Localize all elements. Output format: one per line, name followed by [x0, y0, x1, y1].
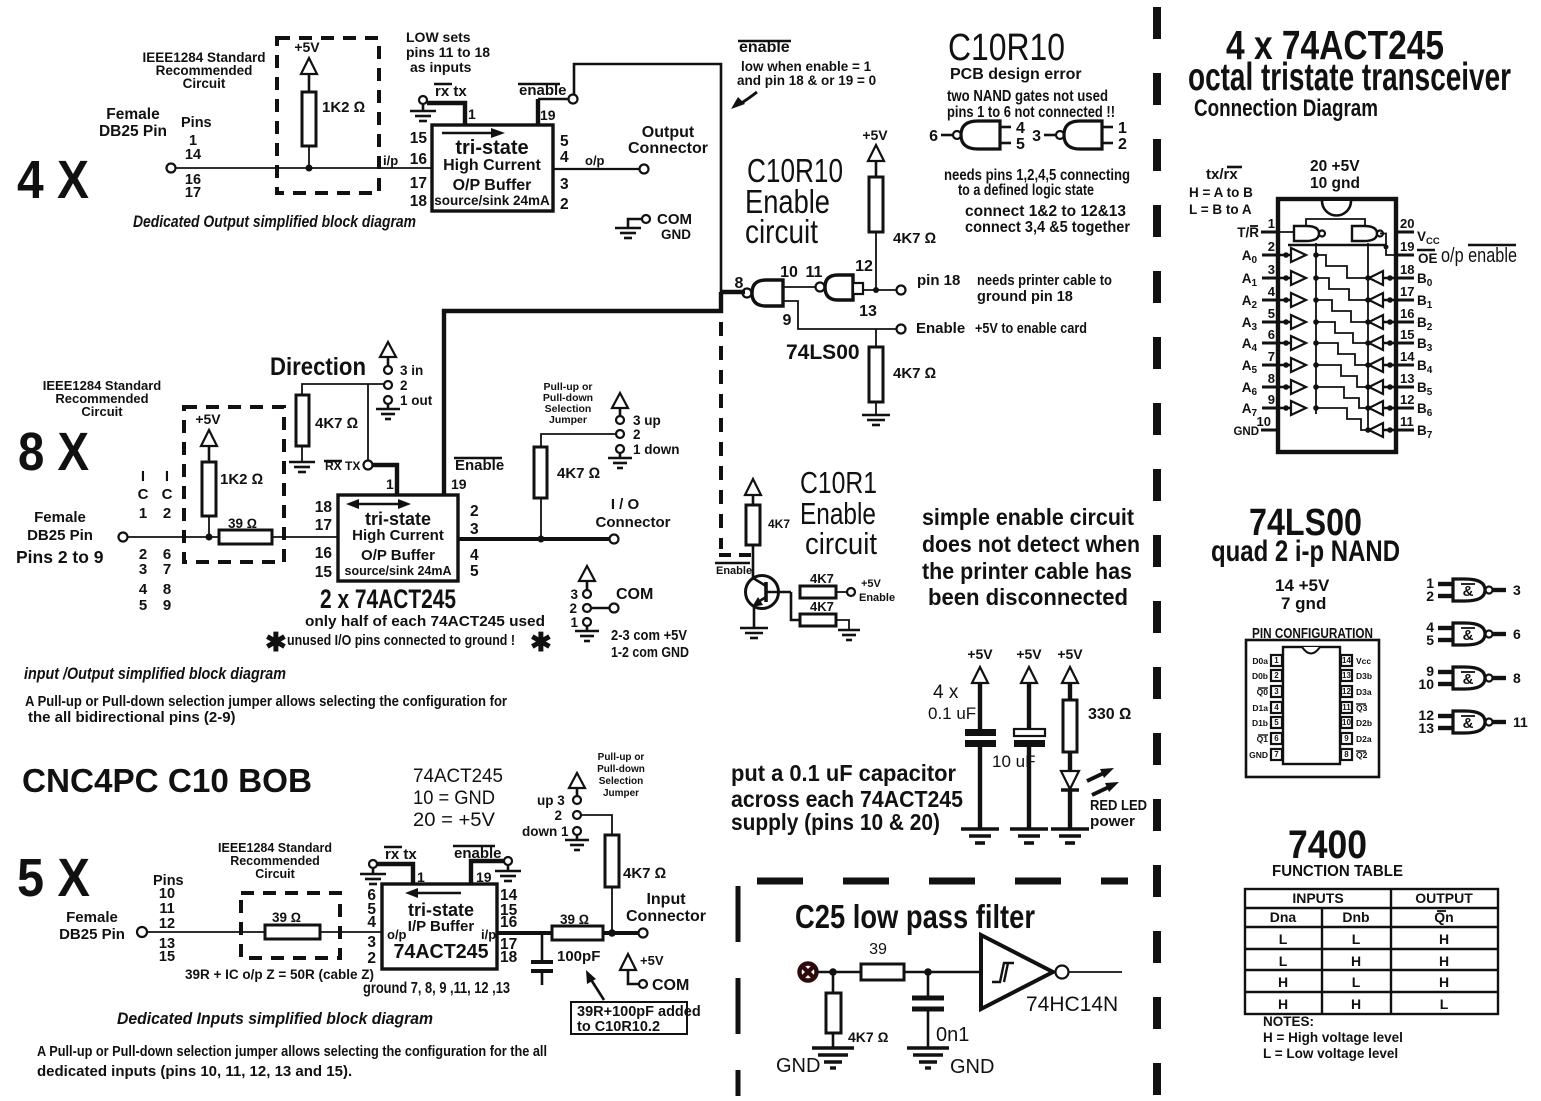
svg-text:to C10R10.2: to C10R10.2 [577, 1019, 660, 1035]
svg-text:7: 7 [163, 561, 171, 578]
label Output Connector [628, 124, 708, 157]
svg-text:2 x 74ACT245: 2 x 74ACT245 [320, 584, 456, 614]
svg-text:H: H [1351, 996, 1361, 1012]
wire pins to buffers B side [1383, 278, 1396, 430]
svg-text:D2b: D2b [1356, 718, 1372, 728]
svg-text:39 Ω: 39 Ω [272, 910, 301, 925]
svg-text:low when enable = 1: low when enable = 1 [741, 59, 872, 74]
svg-text:i/p: i/p [481, 927, 496, 942]
svg-text:I/P Buffer: I/P Buffer [408, 918, 475, 935]
svg-text:+5V: +5V [294, 39, 320, 55]
capacitor C 10uF polarized [1014, 729, 1045, 736]
svg-text:connect 1&2 to 12&13: connect 1&2 to 12&13 [965, 203, 1126, 220]
svg-text:GND: GND [661, 227, 691, 242]
svg-text:10: 10 [1342, 718, 1351, 727]
ground rx/tx [419, 96, 427, 104]
wire DB25 to buffer i/p [176, 167, 432, 169]
svg-text:12: 12 [855, 258, 873, 275]
svg-text:5: 5 [1426, 632, 1434, 648]
wire gate2 input to pin 18 terminal [863, 289, 897, 291]
wire resistor to ground [836, 620, 849, 630]
svg-text:Input: Input [646, 891, 686, 908]
svg-text:17: 17 [185, 185, 201, 201]
svg-text:74ACT245: 74ACT245 [394, 941, 489, 963]
NAND gate symbol pins 1 2 3 [1426, 575, 1521, 604]
svg-text:Connector: Connector [628, 140, 708, 157]
svg-text:9: 9 [1344, 734, 1349, 743]
wire pins to buffers A side [1278, 255, 1291, 408]
dashed wire Enable into C10R1 [719, 553, 751, 557]
svg-text:Dnb: Dnb [1342, 909, 1369, 925]
buffer triangles B side [1365, 271, 1393, 437]
svg-text:13: 13 [859, 303, 877, 320]
svg-text:Dedicated Output simplified b: Dedicated Output simplified block diagra… [133, 213, 416, 231]
svg-text:3: 3 [1513, 582, 1521, 598]
pin numbers right [1400, 216, 1415, 429]
resistor 39 [861, 964, 904, 980]
svg-text:O/P Buffer: O/P Buffer [453, 177, 532, 194]
resistor 4K7 base [746, 505, 760, 545]
svg-text:and pin 18 & or 19 = 0: and pin 18 & or 19 = 0 [737, 73, 876, 88]
terminal RX TX [364, 461, 373, 470]
svg-text:input /Output simplified block: input /Output simplified block diagram [24, 664, 286, 683]
wire 4K7 down to ground [301, 446, 303, 462]
pin labels left 15 16 17 18 [410, 130, 428, 210]
svg-text:+5V to enable card: +5V to enable card [975, 321, 1087, 337]
svg-text:3 in: 3 in [400, 363, 423, 378]
resistor 4K7 direction pull [296, 395, 309, 446]
svg-text:4K7 Ω: 4K7 Ω [623, 865, 666, 882]
svg-text:17: 17 [410, 175, 427, 192]
svg-text:4K7 Ω: 4K7 Ω [893, 365, 936, 382]
svg-text:COM: COM [657, 211, 692, 228]
svg-text:C: C [162, 486, 173, 503]
svg-text:Connection Diagram: Connection Diagram [1194, 95, 1378, 122]
svg-text:LOW sets: LOW sets [406, 29, 471, 45]
svg-text:power: power [1090, 813, 1135, 830]
svg-text:L: L [1279, 953, 1288, 969]
svg-text:GND: GND [776, 1055, 820, 1077]
svg-text:the all bidirectional pins (2-: the all bidirectional pins (2-9) [28, 709, 236, 726]
svg-text:17: 17 [1400, 284, 1414, 299]
svg-text:14: 14 [1342, 656, 1351, 665]
svg-text:18: 18 [500, 949, 518, 966]
resistor 39 series [265, 925, 320, 939]
wire emitter to ground [753, 607, 756, 628]
svg-text:8: 8 [735, 275, 744, 292]
svg-text:1: 1 [139, 505, 147, 522]
svg-text:1: 1 [1274, 656, 1279, 665]
svg-text:18: 18 [410, 193, 428, 210]
svg-text:2-3 com +5V: 2-3 com +5V [611, 628, 687, 644]
svg-text:circuit: circuit [805, 526, 877, 561]
pin stubs left [1261, 232, 1278, 430]
wire 4K7 up to jumper pin2 [541, 434, 615, 447]
NAND gate symbol pins 4 5 6 [1426, 619, 1521, 648]
bus right [1367, 243, 1369, 430]
wire enable pin 19 to ground terminal [471, 861, 504, 884]
svg-text:14 +5V: 14 +5V [1275, 576, 1330, 595]
staircase wires [1316, 255, 1368, 430]
pin labels left 6 5 4 3 2 [367, 887, 376, 967]
svg-text:✱: ✱ [265, 627, 287, 657]
svg-text:13: 13 [1400, 371, 1414, 386]
svg-text:High Current: High Current [443, 157, 541, 174]
svg-text:4: 4 [560, 149, 569, 166]
svg-text:H: H [1439, 953, 1449, 969]
svg-text:Jumper: Jumper [549, 414, 587, 426]
pin labels right 14 15 16 17 18 [500, 887, 518, 966]
terminal input X [800, 964, 817, 981]
svg-text:9: 9 [783, 312, 792, 329]
svg-text:5: 5 [470, 563, 479, 580]
svg-text:H = High voltage level: H = High voltage level [1263, 1030, 1403, 1045]
svg-text:3: 3 [1274, 687, 1279, 696]
ground below pin1 [387, 404, 390, 409]
svg-text:needs printer cable to: needs printer cable to [977, 273, 1112, 289]
svg-text:✱: ✱ [530, 627, 552, 657]
svg-text:Enable: Enable [716, 565, 752, 577]
svg-text:4: 4 [367, 914, 376, 931]
svg-text:4: 4 [139, 581, 148, 598]
note Pull-up or Pull-down Selection Jumper [597, 752, 645, 799]
svg-text:5: 5 [1274, 718, 1279, 727]
wire rx/tx to pin1 [377, 864, 413, 884]
svg-text:0.1 uF: 0.1 uF [928, 704, 976, 723]
svg-text:IEEE1284 Standard: IEEE1284 Standard [218, 841, 332, 855]
svg-text:DB25 Pin: DB25 Pin [27, 527, 93, 544]
svg-text:+5V: +5V [195, 411, 221, 427]
svg-text:source/sink 24mA: source/sink 24mA [345, 564, 452, 578]
svg-text:octal tristate transceiver: octal tristate transceiver [1188, 56, 1511, 99]
svg-text:18: 18 [1400, 262, 1414, 277]
svg-text:2: 2 [554, 808, 562, 823]
pin labels left 18 17 16 15 [315, 499, 333, 581]
svg-text:4 X: 4 X [17, 150, 89, 210]
arrows LED light [1087, 772, 1106, 781]
power +5V jumper [569, 773, 585, 788]
svg-text:Pull-up or: Pull-up or [598, 752, 645, 763]
pin labels right 5 4 3 2 [560, 133, 569, 213]
terminal input connector [639, 929, 648, 938]
wire buffer to I/O connector [458, 537, 610, 541]
dashed page separator [1153, 7, 1161, 1096]
note put a 0.1uF capacitor [731, 760, 963, 835]
svg-text:GND: GND [1233, 426, 1259, 438]
svg-text:4: 4 [1016, 120, 1025, 137]
svg-text:+5V: +5V [1016, 646, 1042, 662]
wire jumper pin2 to 4K7 [581, 815, 612, 835]
svg-text:Dedicated Inputs simplif: Dedicated Inputs simplified block diagra… [117, 1010, 433, 1028]
svg-text:Direction: Direction [270, 353, 366, 381]
DIP14 outer box [1246, 640, 1379, 777]
pin numbers left [1257, 216, 1276, 429]
dashed box IEEE1284 [241, 893, 340, 958]
svg-text:10: 10 [159, 886, 175, 902]
jumper pins 3 2 1 [573, 796, 581, 804]
svg-text:16: 16 [315, 545, 333, 562]
wire input to node1 [816, 971, 861, 974]
svg-text:rx tx: rx tx [435, 83, 467, 100]
svg-text:5: 5 [1268, 306, 1275, 321]
svg-text:Circuit: Circuit [81, 404, 123, 419]
svg-text:ground pin 18: ground pin 18 [977, 289, 1073, 305]
NAND gate inside chip left [1294, 226, 1319, 241]
svg-text:PCB design error: PCB design error [950, 66, 1082, 83]
svg-text:rx tx: rx tx [385, 846, 417, 863]
dashed wire enable region [719, 322, 723, 549]
svg-text:3: 3 [1032, 128, 1041, 145]
svg-text:9: 9 [1268, 392, 1275, 407]
wire resistor to transistor [752, 545, 755, 578]
resistor 4K7 to ground [800, 614, 836, 626]
svg-text:quad 2 i-p NAND: quad 2 i-p NAND [1211, 535, 1400, 568]
svg-text:C: C [138, 486, 149, 503]
svg-text:put a 0.1 uF capacitor: put a 0.1 uF capacitor [731, 760, 956, 786]
svg-text:7400: 7400 [1288, 823, 1367, 867]
resistor 4K7 pull jumper [534, 447, 547, 498]
svg-text:15: 15 [315, 564, 333, 581]
resistor 39 series [219, 530, 272, 544]
wire 4K7 up to jumper pin2 [302, 384, 384, 395]
ground COM GND [642, 215, 650, 223]
svg-text:2: 2 [633, 427, 641, 442]
svg-text:15: 15 [1400, 327, 1414, 342]
svg-text:&: & [1463, 715, 1474, 732]
svg-text:20 +5V: 20 +5V [1310, 158, 1360, 175]
svg-text:20 = +5V: 20 = +5V [413, 810, 495, 831]
svg-text:o/p: o/p [585, 153, 605, 168]
svg-text:NOTES:: NOTES: [1263, 1014, 1314, 1029]
diode LED red [1061, 771, 1079, 789]
resistor 4K7 [605, 835, 619, 887]
label IC1 IC2 columns [138, 468, 173, 614]
svg-text:H: H [1278, 974, 1288, 990]
table 7400 function [1245, 889, 1498, 1014]
wire rx/tx to pin 1 [427, 103, 465, 125]
svg-text:as inputs: as inputs [410, 59, 472, 75]
svg-text:A Pull-up or Pull-down selecti: A Pull-up or Pull-down selection jumper … [37, 1043, 547, 1060]
ground GND right [907, 1048, 949, 1068]
wire internal bus under gates [1288, 244, 1386, 247]
svg-text:12: 12 [159, 916, 175, 932]
wire resistor to LED [1068, 752, 1072, 771]
svg-text:H: H [1439, 931, 1449, 947]
svg-text:i/p: i/p [383, 153, 398, 168]
label Female DB25 Pin [99, 106, 167, 140]
node junction on i/p wire [306, 165, 313, 172]
svg-text:DB25 Pin: DB25 Pin [59, 926, 125, 943]
svg-text:10 uF: 10 uF [992, 752, 1035, 771]
svg-text:2: 2 [400, 378, 408, 393]
svg-text:4 x: 4 x [933, 682, 959, 703]
svg-text:&: & [1463, 671, 1474, 688]
svg-text:I: I [165, 468, 169, 485]
svg-text:&: & [1463, 583, 1474, 600]
wire to terminal [836, 591, 847, 593]
svg-text:dedicated inputs (pins 10, 11,: dedicated inputs (pins 10, 11, 12, 13 an… [37, 1063, 352, 1080]
svg-text:Output: Output [642, 124, 695, 141]
wire pullup to pin18 line [875, 232, 877, 290]
svg-text:39 Ω: 39 Ω [228, 516, 257, 531]
svg-text:C10R1: C10R1 [800, 465, 877, 500]
svg-text:GND: GND [950, 1056, 994, 1078]
svg-text:Pins 2 to 9: Pins 2 to 9 [16, 547, 104, 567]
svg-text:Connector: Connector [596, 514, 671, 531]
svg-text:simple enable circuit: simple enable circuit [922, 504, 1134, 530]
svg-text:supply (pins 10 & 20): supply (pins 10 & 20) [731, 809, 940, 835]
transistor Q1 [746, 576, 779, 609]
arrow bidirectional [355, 503, 402, 506]
ground [838, 630, 860, 640]
svg-text:74ACT245: 74ACT245 [413, 766, 503, 787]
svg-text:5 X: 5 X [17, 848, 90, 908]
svg-text:does not detect when: does not detect when [922, 531, 1140, 557]
svg-text:1: 1 [1118, 120, 1127, 137]
svg-text:INPUTS: INPUTS [1292, 890, 1343, 906]
ground [862, 415, 890, 425]
svg-text:High Current: High Current [352, 527, 444, 544]
terminal DB25 [119, 533, 128, 542]
svg-text:COM: COM [652, 977, 689, 994]
svg-text:+5V: +5V [862, 127, 888, 143]
dashed box C25 filter top border [757, 878, 1128, 885]
wire resistor to node [308, 146, 310, 168]
svg-text:12: 12 [1400, 392, 1414, 407]
resistor 4K7 pulldown [869, 347, 883, 402]
svg-text:OE: OE [1418, 251, 1438, 266]
svg-text:T/R: T/R [1237, 225, 1259, 240]
svg-text:11: 11 [1400, 414, 1414, 429]
svg-text:o/p enable: o/p enable [1441, 245, 1517, 267]
svg-text:3: 3 [570, 587, 578, 602]
arrow direction right [442, 132, 494, 135]
svg-text:H: H [1439, 974, 1449, 990]
svg-text:Dna: Dna [1270, 909, 1297, 925]
svg-text:two NAND gates not used: two NAND gates not used [947, 88, 1108, 105]
svg-text:17: 17 [315, 517, 332, 534]
svg-text:D1b: D1b [1252, 718, 1268, 728]
svg-text:C25 low pass filter: C25 low pass filter [795, 898, 1035, 935]
schmitt hysteresis symbol [992, 963, 1014, 982]
svg-text:8: 8 [1344, 750, 1349, 759]
svg-text:Selection: Selection [599, 776, 643, 787]
svg-text:3: 3 [139, 561, 147, 578]
svg-text:L = B to A: L = B to A [1189, 202, 1252, 217]
DIP14 body [1283, 647, 1340, 764]
svg-text:2: 2 [560, 196, 569, 213]
op-amp tri-state O/P buffer box 2x74ACT245 [338, 495, 458, 581]
svg-text:unused I/O pins connected to g: unused I/O pins connected to ground ! [287, 632, 515, 649]
op-amp tri-state I/P buffer 74ACT245 [382, 884, 497, 969]
svg-text:Enable: Enable [455, 457, 504, 474]
svg-text:O/P Buffer: O/P Buffer [361, 547, 435, 564]
svg-text:6: 6 [1513, 626, 1521, 642]
svg-text:H: H [1351, 953, 1361, 969]
svg-text:+5V: +5V [1057, 646, 1083, 662]
note Pull-up or Pull-down Selection Jumper [543, 381, 593, 426]
svg-text:tri-state: tri-state [408, 900, 474, 920]
svg-text:+5V: +5V [640, 953, 664, 968]
DIP14 pins left [1271, 655, 1282, 760]
power +5V COM [620, 954, 636, 970]
svg-text:11: 11 [1513, 714, 1528, 730]
svg-text:Recommended: Recommended [230, 854, 320, 868]
ground [961, 829, 999, 843]
terminal enable [569, 95, 578, 104]
jumper pull pins 3 2 1 [616, 416, 624, 424]
svg-text:been disconnected: been disconnected [928, 584, 1128, 610]
svg-text:8: 8 [163, 581, 171, 598]
resistor 1K2 [202, 462, 216, 516]
svg-text:9: 9 [163, 597, 171, 614]
power +5V direction jumper [380, 342, 396, 357]
svg-text:3 up: 3 up [633, 413, 661, 428]
ground rx/tx [369, 860, 377, 868]
svg-text:6: 6 [1274, 734, 1279, 743]
svg-text:10 = GND: 10 = GND [413, 788, 495, 809]
svg-text:4K7 Ω: 4K7 Ω [315, 415, 358, 432]
svg-text:16: 16 [500, 914, 518, 931]
wire enable bus down and left to 8X pin19 [721, 290, 745, 294]
IC U2 74ACT245 chip body [1278, 199, 1396, 452]
note simple enable circuit [922, 504, 1140, 610]
svg-text:pins 11 to 18: pins 11 to 18 [406, 44, 490, 60]
wire pulldown to ground [875, 402, 877, 415]
svg-text:4K7: 4K7 [810, 571, 834, 586]
svg-text:11: 11 [1342, 703, 1351, 712]
svg-text:1K2 Ω: 1K2 Ω [220, 471, 263, 488]
svg-text:15: 15 [410, 130, 428, 147]
label Female DB25 Pin [27, 509, 93, 544]
NAND gate symbol pins 9 10 8 [1418, 663, 1521, 692]
pin labels right 2 3 4 5 [470, 503, 479, 580]
pin labels left [1233, 225, 1259, 438]
svg-text:74LS00: 74LS00 [786, 341, 860, 364]
svg-text:1 out: 1 out [400, 393, 433, 408]
svg-text:Circuit: Circuit [183, 76, 226, 91]
ground below pin1 [619, 453, 622, 458]
svg-text:D0a: D0a [1252, 656, 1268, 666]
bus left [1315, 243, 1317, 414]
wire DB25 to buffer [128, 536, 338, 538]
svg-text:10 gnd: 10 gnd [1310, 175, 1360, 192]
svg-text:5: 5 [560, 133, 569, 150]
svg-text:10: 10 [1418, 676, 1434, 692]
wire resistor to terminal [603, 931, 639, 935]
wire jumper to RX TX node [367, 384, 369, 461]
terminal output connector [640, 165, 649, 174]
node junction to resistors [791, 592, 800, 620]
svg-text:11: 11 [806, 264, 823, 281]
svg-text:1: 1 [570, 615, 578, 630]
svg-text:2: 2 [1426, 588, 1434, 604]
svg-text:o/p: o/p [387, 927, 407, 942]
capacitor C 0.1uF [965, 729, 996, 736]
DIP14 labels left [1249, 656, 1268, 760]
power +5V [745, 479, 761, 495]
power +5V pull jumper [612, 393, 628, 408]
NAND gate inside chip right [1352, 226, 1377, 241]
note LOW sets pins 11 to 18 as inputs [406, 29, 490, 75]
svg-text:circuit: circuit [745, 213, 818, 250]
svg-text:DB25 Pin: DB25 Pin [99, 123, 167, 140]
svg-text:39 Ω: 39 Ω [560, 912, 589, 927]
svg-text:12: 12 [1342, 687, 1351, 696]
svg-text:D1a: D1a [1252, 703, 1268, 713]
svg-text:H = A to B: H = A to B [1189, 185, 1253, 200]
svg-text:2: 2 [163, 505, 171, 522]
